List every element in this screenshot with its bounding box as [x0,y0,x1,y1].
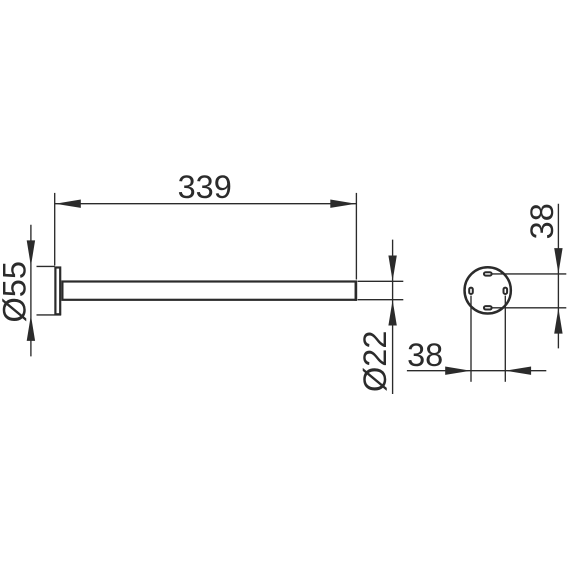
dimension 38 vertical: bottom extension line [492,307,566,309]
dimension Ø22: bottom extension line [358,299,404,301]
dimension 339: dimension line [55,203,357,205]
side view: towel bar tube (length 339, Ø22) [62,282,355,300]
side view: bar end cap line [355,281,358,301]
dimension 38 horizontal: right extension line [504,296,506,382]
svg-text:Ø22: Ø22 [357,331,393,392]
rear view: mounting plate circle (Ø55) [465,267,511,313]
dimension Ø22: top arrowhead [388,256,396,282]
dimension 38 horizontal: value label [407,337,443,373]
dimension Ø55: dimension line [30,225,32,357]
svg-text:38: 38 [407,337,443,373]
dimension 339: left arrowhead [55,200,81,208]
dimension 38 vertical: bottom arrowhead [554,308,562,334]
dimension Ø22: value label (rotated) [357,331,393,392]
rear view: left screw slot [469,288,473,294]
dimension Ø22: dimension line [392,240,394,394]
dimension Ø55: top arrowhead [27,240,35,266]
dimension 38 vertical: top extension line [492,273,566,275]
dimension Ø22: bottom arrowhead [388,300,396,326]
dimension 38 horizontal: left arrowhead [445,367,471,375]
dimension Ø55: bottom extension line [37,314,62,316]
side view: wall flange plate (Ø55) [55,268,60,315]
rear view: bottom screw slot [484,306,492,309]
dimension Ø55: top extension line [37,265,55,267]
dimension 38 vertical: value label (rotated) [524,203,560,239]
svg-text:339: 339 [178,169,232,205]
dimension 339: right extension line [355,193,357,280]
dimension 339: value label [178,169,232,205]
dimension Ø55: bottom arrowhead [27,315,35,341]
dimension 339: left extension line [54,193,56,266]
dimension Ø55: value label (rotated) [0,261,32,322]
svg-text:Ø55: Ø55 [0,261,32,322]
dimension 38 horizontal: left extension line [470,296,472,382]
dimension 38 vertical: dimension line [557,204,559,349]
dimension 339: right arrowhead [330,200,356,208]
dimension 38 vertical: top arrowhead [554,248,562,274]
svg-text:38: 38 [524,203,560,239]
rear view: right screw slot [504,288,508,294]
dimension 38 horizontal: dimension line [407,370,546,372]
dimension Ø22: top extension line [358,280,404,282]
rear view: top screw slot [484,272,492,275]
dimension 38 horizontal: right arrowhead [506,367,531,375]
